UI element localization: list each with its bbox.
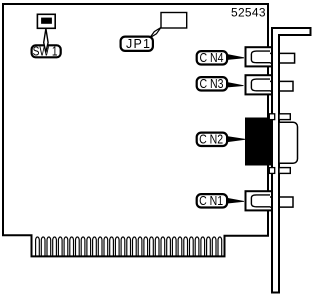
connector CN2 black body	[245, 118, 273, 166]
card outline	[3, 4, 268, 256]
connector CN4	[246, 47, 295, 66]
label CN1	[197, 194, 227, 207]
svg-text:C N2: C N2	[199, 132, 223, 146]
svg-text:C N4: C N4	[200, 51, 224, 65]
svg-text:C N1: C N1	[199, 194, 223, 208]
needle CN2	[228, 137, 245, 142]
label SW1	[32, 45, 61, 57]
edge connector fingers	[36, 237, 222, 256]
needle SW1	[44, 29, 48, 53]
svg-text:JP1: JP1	[126, 37, 150, 51]
needle CN4	[228, 55, 244, 60]
component SW1	[37, 14, 55, 28]
CN2 DB9 tab upper	[269, 114, 274, 120]
needle JP1	[150, 28, 161, 38]
needle CN3	[228, 83, 244, 87]
bracket	[272, 28, 311, 293]
CN2 DB9 ear upper	[279, 114, 290, 120]
CN2 DB9 ear lower	[279, 168, 290, 174]
CN2 DB9 shell	[279, 122, 298, 163]
svg-text:52543: 52543	[231, 6, 266, 20]
svg-text:C N3: C N3	[200, 77, 224, 91]
label CN2	[197, 133, 227, 146]
connector CN3	[246, 75, 294, 94]
needle CN1	[228, 198, 244, 203]
label CN4	[197, 51, 227, 64]
label CN3	[197, 77, 227, 90]
component JP1	[161, 13, 187, 29]
CN2 DB9 tab lower	[269, 168, 274, 174]
label JP1	[121, 37, 153, 51]
connector CN1	[246, 191, 294, 210]
